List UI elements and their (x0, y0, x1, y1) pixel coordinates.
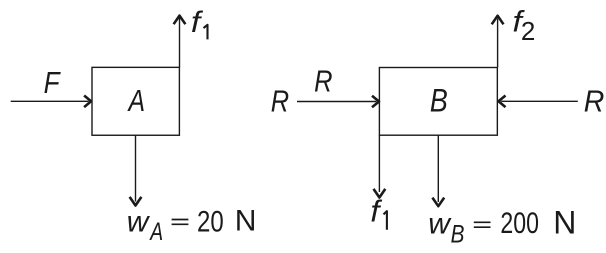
svg-text:N: N (235, 205, 257, 238)
svg-text:A: A (127, 83, 145, 117)
block A (92, 67, 179, 135)
svg-text:N: N (553, 204, 576, 240)
svg-text:F: F (44, 66, 61, 101)
friction arrow f1 on A (upward) (174, 16, 186, 68)
label wA = 20 N (127, 204, 257, 246)
label wB = 200 N (428, 204, 576, 248)
svg-text:f: f (191, 5, 204, 39)
friction arrow f2 on B (upward) (492, 16, 504, 68)
svg-text:B: B (430, 83, 448, 119)
reaction arrow R (left side, pointing right) (297, 96, 379, 108)
weight arrow wB (downward) (432, 135, 444, 206)
svg-text:20: 20 (197, 204, 224, 238)
svg-text:R: R (314, 64, 332, 99)
svg-text:R: R (271, 84, 289, 119)
svg-text:B: B (451, 220, 465, 248)
subscript 1 of f1 (below B) (384, 211, 387, 230)
friction arrow f1 on B (downward) (374, 135, 386, 197)
svg-text:f: f (370, 193, 382, 228)
svg-text:200: 200 (500, 206, 539, 240)
reaction arrow R (right side, pointing left) (499, 96, 578, 108)
svg-text:2: 2 (521, 16, 535, 46)
svg-text:w: w (428, 208, 452, 241)
weight arrow wA (downward) (130, 135, 142, 205)
svg-text:w: w (127, 205, 151, 238)
svg-text:A: A (148, 218, 163, 246)
block B (379, 68, 497, 136)
applied force arrow F (11, 96, 91, 108)
svg-text:R: R (584, 85, 605, 119)
subscript 1 of f1 (top) (204, 25, 208, 40)
